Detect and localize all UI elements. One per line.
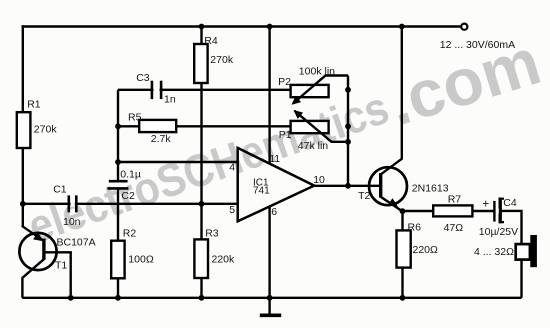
svg-text:R5: R5 (128, 111, 142, 123)
svg-text:11: 11 (269, 153, 280, 165)
svg-text:270k: 270k (210, 54, 234, 66)
svg-text:R6: R6 (408, 221, 422, 233)
svg-text:47Ω: 47Ω (444, 222, 464, 234)
svg-text:100k lin: 100k lin (299, 66, 335, 78)
svg-text:270k: 270k (34, 124, 58, 136)
svg-text:C1: C1 (53, 184, 67, 196)
svg-text:T1: T1 (55, 260, 67, 272)
svg-text:R4: R4 (204, 35, 218, 47)
svg-text:0.1µ: 0.1µ (120, 169, 141, 181)
svg-text:+: + (482, 197, 489, 211)
svg-text:1n: 1n (164, 93, 176, 105)
svg-text:C2: C2 (121, 190, 135, 202)
svg-text:4: 4 (229, 161, 235, 173)
svg-text:P1: P1 (279, 129, 292, 141)
svg-text:6: 6 (271, 206, 277, 218)
svg-text:100Ω: 100Ω (128, 253, 154, 265)
svg-text:C3: C3 (136, 72, 150, 84)
svg-text:10µ/25V: 10µ/25V (479, 226, 518, 238)
svg-text:5: 5 (229, 204, 235, 216)
svg-text:R3: R3 (205, 228, 219, 240)
svg-text:2.7k: 2.7k (151, 133, 172, 145)
svg-text:R1: R1 (27, 99, 41, 111)
svg-text:741: 741 (253, 186, 270, 197)
svg-text:R2: R2 (123, 228, 137, 240)
svg-text:BC107A: BC107A (57, 236, 96, 248)
svg-text:T2: T2 (358, 190, 370, 202)
svg-text:220k: 220k (212, 253, 236, 265)
svg-text:4 ... 32Ω: 4 ... 32Ω (474, 246, 514, 258)
svg-text:2N1613: 2N1613 (412, 182, 449, 194)
svg-text:220Ω: 220Ω (413, 244, 439, 256)
svg-text:P2: P2 (278, 76, 291, 88)
svg-text:47k lin: 47k lin (298, 140, 329, 152)
svg-text:12 ... 30V/60mA: 12 ... 30V/60mA (440, 39, 515, 51)
svg-text:10: 10 (313, 174, 325, 186)
svg-text:C4: C4 (503, 197, 517, 209)
svg-text:10n: 10n (63, 216, 81, 228)
svg-text:R7: R7 (448, 194, 462, 206)
